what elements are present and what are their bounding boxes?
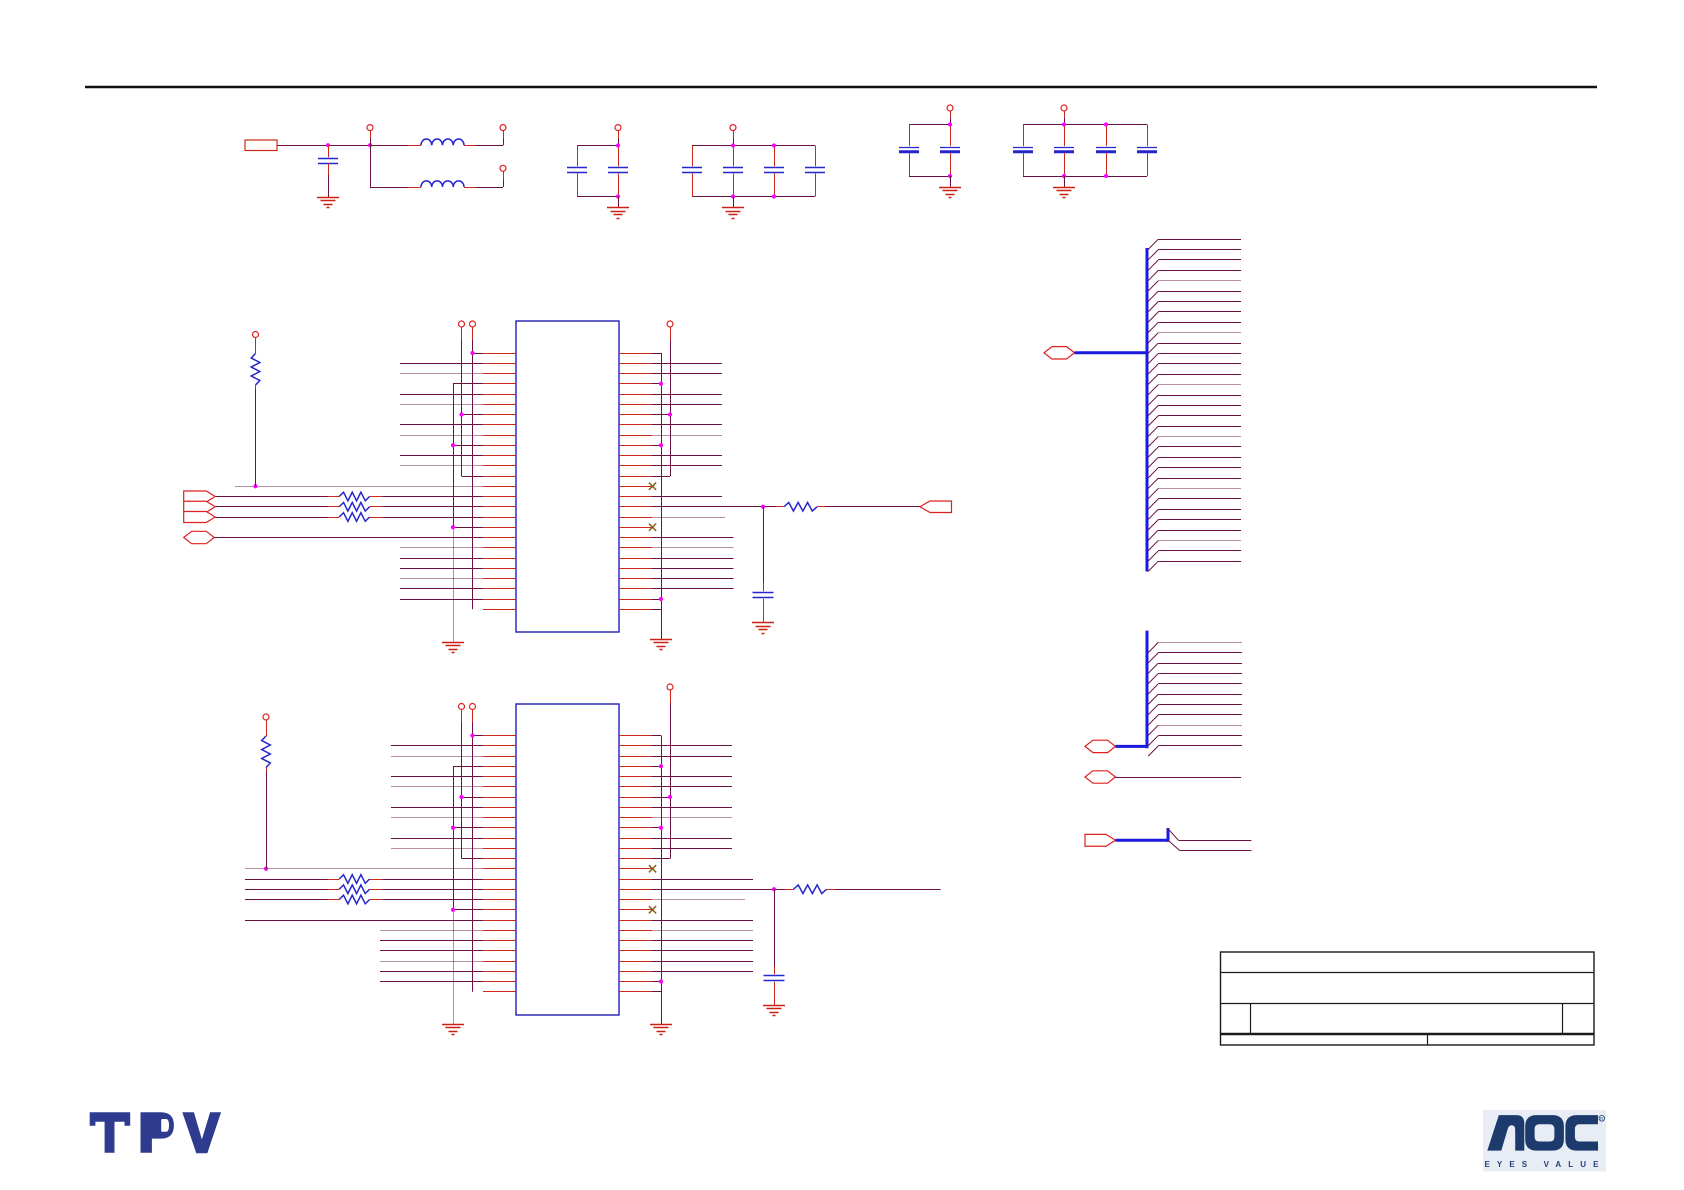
wire [835, 889, 941, 891]
U1 right wires [652, 354, 734, 610]
U1 no-connect X marks [649, 483, 656, 531]
bus B3 entries and wires [1168, 829, 1251, 851]
port power [1061, 105, 1067, 125]
capacitor [1096, 125, 1116, 177]
title block [1221, 952, 1595, 1045]
wire [277, 145, 370, 147]
U1 vertical rail V661 [661, 353, 663, 639]
port hex P4 [1085, 771, 1116, 783]
capacitor [764, 146, 784, 197]
U1 right junction dots [659, 382, 672, 601]
U2 right pin stubs [619, 736, 652, 992]
port power [947, 105, 953, 125]
U2 ground right [650, 1025, 672, 1035]
resistor R out U2 [786, 885, 836, 894]
wire [476, 145, 503, 147]
bus B2 entries and wires [1148, 642, 1242, 756]
port hex bus B1 [1044, 347, 1075, 359]
inductor L2 [408, 181, 476, 188]
capacitor [567, 146, 587, 197]
wire [476, 187, 503, 189]
capacitor [1137, 125, 1157, 177]
capacitor [899, 125, 919, 177]
port P1 [367, 125, 373, 146]
capacitor [1054, 125, 1074, 177]
node junctions [616, 143, 620, 198]
ground [763, 1006, 785, 1016]
U1 vertical rail V462 from port [459, 321, 465, 476]
U2 vertical rail V453 [453, 766, 455, 1024]
U1 vertical rail V453 [453, 384, 455, 642]
IC U2 [516, 704, 619, 1015]
port hex [184, 531, 245, 543]
U2 output wire [652, 887, 786, 891]
capacitor [1013, 125, 1033, 177]
U1 right pin stubs [619, 354, 652, 610]
capacitor [682, 146, 702, 197]
U2 vertical rail V661 [661, 736, 663, 1025]
U2 right junction dots [659, 764, 672, 983]
capacitor [940, 125, 960, 177]
wire [1023, 125, 1147, 177]
wire [692, 146, 815, 197]
wire [618, 197, 620, 208]
U2 ground left [442, 1025, 464, 1035]
capacitor [723, 146, 743, 197]
wire [950, 176, 952, 187]
U1 left wires [235, 354, 483, 600]
U2 left pin stubs [483, 736, 516, 992]
U1 ground right [650, 640, 672, 650]
ground [607, 208, 629, 219]
svg-text:EYES VALUE: EYES VALUE [1485, 1160, 1606, 1169]
capacitor [805, 146, 825, 197]
wire [774, 889, 776, 966]
wire [577, 146, 618, 197]
svg-text:R: R [1600, 1116, 1603, 1121]
resistor R series U1_1 [215, 492, 483, 501]
capacitor C out U2 [764, 966, 785, 1005]
U1 output wire [652, 505, 776, 509]
wire [328, 175, 330, 197]
resistor R series U1_3 [215, 513, 483, 522]
resistor R out U1 [776, 502, 826, 511]
port P3 [500, 165, 506, 187]
ground [1053, 188, 1075, 198]
ground [752, 623, 774, 634]
connector J1 label box [245, 140, 277, 151]
U2 no-connect X marks [649, 865, 656, 913]
wire [826, 506, 921, 508]
port hex bus B2 [1085, 740, 1116, 752]
node junctions [948, 122, 952, 178]
U1 vertical rail V473 from port [470, 321, 476, 609]
AOC logo [1483, 1110, 1606, 1172]
resistor R pullup U1 [251, 332, 260, 390]
U2 vertical rail V462 from port [459, 704, 465, 859]
U2 left junction dots [264, 733, 475, 911]
resistor R series U2_2 [245, 885, 483, 894]
capacitor [608, 146, 628, 197]
resistor R pullup U2 [262, 714, 271, 772]
wire [1064, 176, 1066, 187]
U1 left junction dots [253, 351, 474, 529]
resistor R series U1_2 [215, 502, 483, 511]
wire [370, 145, 408, 187]
capacitor C out U1 [753, 583, 774, 623]
wire [370, 145, 408, 147]
U2 vertical rail V670 from port [667, 684, 673, 859]
node junction [326, 143, 330, 147]
U2 right wires [652, 736, 753, 992]
bus B1 entries and wires [1148, 239, 1241, 571]
resistor R series U2_1 [245, 875, 483, 884]
wire [733, 197, 735, 208]
port P2 [500, 125, 506, 146]
resistor R series U2_3 [245, 895, 483, 904]
wire [1116, 777, 1242, 779]
capacitor C1 [318, 145, 338, 175]
node junctions [1062, 122, 1108, 178]
port power [615, 125, 621, 146]
ground [939, 188, 961, 198]
bus wire to B1 [1075, 351, 1148, 354]
U1 vertical rail V670 from port [667, 321, 673, 476]
bus wire B3 [1116, 828, 1169, 842]
U1 left pin stubs [483, 354, 516, 610]
bus B2 vertical [1146, 631, 1149, 749]
TPV logo [90, 1112, 221, 1153]
port out left-pointing [920, 501, 952, 513]
node junction [368, 143, 372, 147]
bus wire to B2 [1116, 745, 1148, 748]
U2 vertical rail V473 from port [470, 704, 476, 992]
U2 left wires [245, 736, 483, 982]
node junctions [731, 143, 776, 198]
wire [255, 389, 257, 486]
port group 3x right-pointing [184, 491, 216, 523]
bus B1 vertical [1146, 248, 1149, 572]
ground [317, 198, 339, 208]
wire [266, 772, 268, 869]
U1 ground left [442, 643, 464, 653]
ground [722, 208, 744, 219]
IC U1 [516, 321, 619, 632]
port power [730, 125, 736, 146]
wire [763, 507, 765, 583]
wire [909, 125, 950, 177]
inductor L1 [408, 139, 476, 145]
page border rule [85, 86, 1597, 89]
port pentagon P5 [1085, 834, 1116, 846]
